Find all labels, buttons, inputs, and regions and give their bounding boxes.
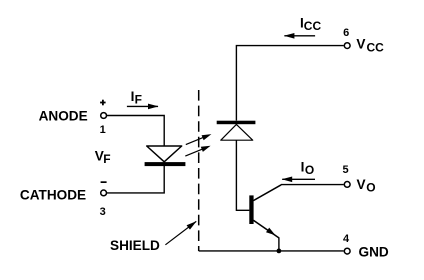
light arrow upper xyxy=(186,134,212,145)
svg-text:3: 3 xyxy=(100,206,106,218)
svg-text:4: 4 xyxy=(343,233,350,245)
svg-text:CATHODE: CATHODE xyxy=(20,188,86,203)
LED D1 xyxy=(145,146,186,166)
svg-text:CC: CC xyxy=(367,40,385,54)
pin 6 terminal xyxy=(344,43,350,49)
arrow IF xyxy=(127,105,158,107)
pin 3 terminal xyxy=(101,190,107,196)
wire anode to LED xyxy=(107,116,164,147)
label ICC xyxy=(300,16,321,34)
svg-text:ANODE: ANODE xyxy=(39,108,88,123)
svg-text:GND: GND xyxy=(359,245,389,260)
svg-text:O: O xyxy=(366,180,375,194)
svg-text:I: I xyxy=(301,159,305,174)
svg-text:6: 6 xyxy=(343,27,349,39)
label IF xyxy=(131,89,142,107)
label VO xyxy=(357,177,376,195)
svg-text:V: V xyxy=(357,177,366,192)
wire collector to pin 5 xyxy=(281,184,344,186)
SHIELD pointer arrow xyxy=(165,221,196,244)
arrow ICC xyxy=(284,35,315,37)
wire GND rail xyxy=(199,250,344,252)
pin 1 terminal xyxy=(101,113,107,119)
shield dashed line xyxy=(198,90,200,251)
junction dot xyxy=(277,249,282,254)
minus polarity mark xyxy=(101,181,107,183)
svg-text:SHIELD: SHIELD xyxy=(110,238,160,253)
svg-text:5: 5 xyxy=(342,164,348,176)
arrow IO xyxy=(282,178,315,180)
plus polarity mark xyxy=(100,100,106,106)
wire LED to cathode xyxy=(107,166,164,193)
pin 5 terminal xyxy=(344,182,350,188)
label IO xyxy=(301,159,315,177)
photodiode D2 xyxy=(217,121,256,141)
svg-text:V: V xyxy=(356,37,365,52)
label VCC xyxy=(356,37,384,55)
pin 4 terminal xyxy=(344,248,350,254)
svg-text:F: F xyxy=(135,93,142,107)
transistor Q1 xyxy=(249,185,281,251)
wire VCC to photodiode xyxy=(236,46,343,121)
light arrow lower xyxy=(185,146,210,156)
wire photodiode to base xyxy=(236,140,249,210)
svg-text:O: O xyxy=(305,163,314,177)
svg-text:1: 1 xyxy=(100,124,106,136)
svg-text:CC: CC xyxy=(304,19,322,33)
svg-text:F: F xyxy=(103,152,110,166)
label VF xyxy=(95,148,111,166)
